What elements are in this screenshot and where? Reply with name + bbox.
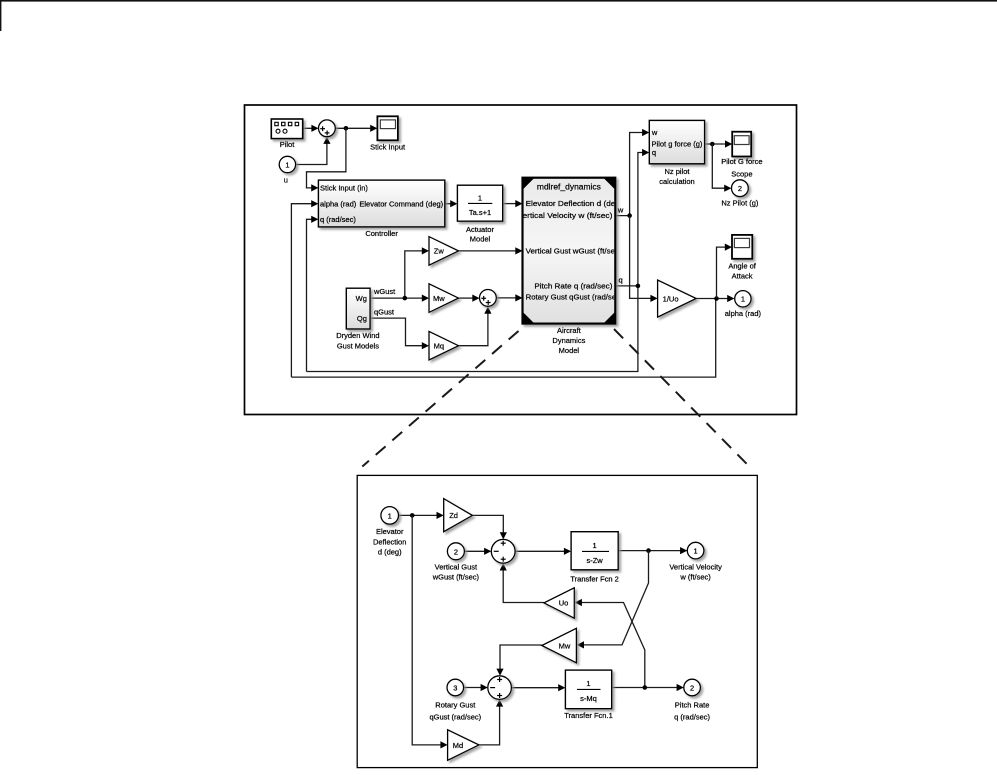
svg-text:Ta.s+1: Ta.s+1 bbox=[469, 208, 491, 217]
svg-text:Gust Models: Gust Models bbox=[337, 342, 379, 351]
svg-text:wGust: wGust bbox=[373, 287, 396, 296]
wire: Zw to model in2 bbox=[459, 250, 517, 252]
svg-text:Vertical Velocity: Vertical Velocity bbox=[669, 562, 722, 571]
svg-text:3: 3 bbox=[453, 684, 457, 693]
signal generator Pilot bbox=[271, 119, 302, 139]
node: q junction bbox=[636, 284, 641, 289]
svg-text:Angle of: Angle of bbox=[728, 261, 756, 270]
transfer fcn Actuator Model bbox=[457, 185, 502, 221]
svg-text:Stick Input: Stick Input bbox=[370, 143, 406, 152]
svg-text:1: 1 bbox=[586, 679, 590, 688]
svg-text:Vertical Gust wGust (ft/sec): Vertical Gust wGust (ft/sec) bbox=[526, 246, 623, 255]
sum S1 bbox=[319, 120, 336, 137]
svg-text:w: w bbox=[651, 128, 658, 137]
svg-text:Md: Md bbox=[453, 741, 463, 750]
wire: input port u to Sum bottom bbox=[296, 141, 327, 165]
wire: Actuator to model in1 bbox=[503, 203, 517, 205]
subsystem Nz pilot calculation bbox=[649, 120, 704, 163]
gain Mw bbox=[429, 284, 459, 313]
outport 2 Nz Pilot bbox=[732, 180, 749, 197]
svg-text:1/Uo: 1/Uo bbox=[663, 294, 679, 303]
node: junction after Sum bbox=[344, 126, 349, 131]
svg-text:Uo: Uo bbox=[559, 599, 569, 608]
svg-text:1: 1 bbox=[388, 511, 392, 520]
svg-text:q: q bbox=[619, 276, 623, 285]
wire: w down to 1/Uo gain bbox=[630, 216, 652, 299]
wire: wGust up to Zw gain bbox=[405, 251, 423, 298]
svg-text:Attack: Attack bbox=[732, 272, 753, 281]
node: Nz output junction bbox=[710, 142, 715, 147]
wire: q output to Nz calc q input bbox=[615, 153, 643, 286]
svg-text:1: 1 bbox=[741, 295, 745, 304]
wire: qGust to Mq gain bbox=[370, 318, 423, 346]
wire: w output to Nz calc w input bbox=[615, 133, 643, 216]
wire: q feedback into Controller bbox=[307, 219, 313, 371]
inport 3 Rotary Gust bbox=[447, 679, 464, 696]
svg-text:Pilot: Pilot bbox=[280, 140, 296, 149]
svg-text:1: 1 bbox=[478, 194, 482, 203]
wire: Transfer Fcn.1 to outport 2 bbox=[612, 687, 678, 689]
scope Angle of Attack bbox=[732, 235, 752, 259]
wire: Mw output to Sum4 top bbox=[500, 645, 542, 670]
gain Mq bbox=[429, 331, 459, 360]
svg-text:Controller: Controller bbox=[365, 229, 398, 238]
wire: alpha up to Angle of Attack scope bbox=[717, 247, 726, 298]
svg-text:Scope: Scope bbox=[731, 169, 752, 178]
node: alpha junction bbox=[714, 296, 719, 301]
svg-text:Pitch Rate q (rad/sec): Pitch Rate q (rad/sec) bbox=[534, 282, 613, 291]
svg-text:q (rad/sec): q (rad/sec) bbox=[674, 712, 710, 721]
wire: w cross down to Mw input bbox=[583, 551, 649, 645]
svg-text:Qg: Qg bbox=[357, 314, 367, 323]
svg-text:Vertical Velocity w (ft/sec): Vertical Velocity w (ft/sec) bbox=[517, 211, 613, 220]
scope Stick Input bbox=[377, 116, 398, 140]
svg-text:1: 1 bbox=[694, 547, 698, 556]
inport 2 Vertical Gust bbox=[447, 543, 464, 560]
gain Uo bbox=[544, 588, 574, 618]
svg-text:Zw: Zw bbox=[434, 247, 445, 256]
wire: Mq up to Sum2 bottom bbox=[459, 310, 488, 345]
svg-text:2: 2 bbox=[454, 547, 458, 556]
wire: Sum2 to model in3 bbox=[496, 297, 516, 299]
svg-text:Vertical Gust: Vertical Gust bbox=[435, 562, 478, 571]
outport 1 alpha bbox=[735, 291, 751, 307]
svg-text:q (rad/sec): q (rad/sec) bbox=[320, 215, 356, 224]
wire: inport3 to Sum4 bbox=[464, 687, 482, 689]
svg-text:Rotary Gust: Rotary Gust bbox=[435, 701, 476, 710]
svg-text:Model: Model bbox=[470, 235, 491, 244]
svg-text:Pilot g force (g): Pilot g force (g) bbox=[652, 140, 703, 149]
svg-text:q: q bbox=[652, 148, 656, 157]
wire: inport1 to Zd bbox=[399, 514, 438, 516]
svg-text:alpha (rad): alpha (rad) bbox=[725, 309, 762, 318]
svg-text:Model: Model bbox=[559, 346, 580, 355]
wire: alpha feedback horizontal bbox=[291, 299, 715, 378]
svg-text:Wg: Wg bbox=[356, 294, 367, 303]
svg-text:d (deg): d (deg) bbox=[378, 547, 402, 556]
svg-text:qGust: qGust bbox=[374, 307, 395, 316]
svg-text:Dryden Wind: Dryden Wind bbox=[336, 331, 379, 340]
svg-text:Nz pilot: Nz pilot bbox=[664, 167, 690, 176]
wire: q feedback horizontal bbox=[307, 286, 638, 372]
svg-text:mdlref_dynamics: mdlref_dynamics bbox=[537, 183, 601, 192]
model reference block mdlref_dynamics bbox=[523, 178, 616, 324]
gain Md bbox=[448, 730, 479, 761]
svg-text:Mq: Mq bbox=[434, 342, 444, 351]
svg-text:2: 2 bbox=[690, 684, 694, 693]
svg-text:qGust (rad/sec): qGust (rad/sec) bbox=[429, 712, 481, 721]
wire: Md output to Sum4 bottom bbox=[479, 706, 500, 745]
svg-text:Elevator Command (deg): Elevator Command (deg) bbox=[359, 199, 443, 208]
sum S4 bbox=[488, 676, 512, 700]
svg-text:w (ft/sec): w (ft/sec) bbox=[679, 573, 711, 582]
svg-text:Transfer Fcn.1: Transfer Fcn.1 bbox=[564, 711, 613, 720]
wire: elevator down to Md bbox=[412, 515, 441, 745]
svg-text:u: u bbox=[284, 176, 288, 185]
svg-text:s-Zw: s-Zw bbox=[586, 556, 603, 565]
svg-text:s-Mq: s-Mq bbox=[580, 694, 597, 703]
svg-text:Nz Pilot (g): Nz Pilot (g) bbox=[721, 198, 759, 207]
wire: Controller to Actuator bbox=[445, 203, 451, 205]
wire: Sum output to Stick Input scope bbox=[335, 127, 371, 129]
subsystem detail outer border bbox=[357, 475, 757, 767]
wire: Sum4 to Transfer Fcn.1 bbox=[511, 687, 559, 689]
wire: 1/Uo output to alpha port bbox=[696, 298, 728, 300]
page corner mark bbox=[0, 0, 997, 2]
outport 1 Vertical Velocity bbox=[687, 542, 704, 559]
wire: Nz calc output to scope bbox=[705, 143, 726, 145]
dashed expansion line right bbox=[614, 329, 748, 466]
svg-text:Mw: Mw bbox=[559, 642, 571, 651]
svg-text:1: 1 bbox=[285, 160, 289, 169]
wire: junction to Controller Stick Input port bbox=[307, 128, 346, 188]
svg-text:alpha (rad): alpha (rad) bbox=[320, 199, 357, 208]
wire: wGust to Mw gain bbox=[370, 297, 423, 299]
wire: Transfer Fcn 2 to outport 1 bbox=[618, 550, 681, 552]
wire: q cross up to Uo input bbox=[581, 603, 645, 688]
svg-text:wGust (ft/sec): wGust (ft/sec) bbox=[432, 573, 480, 582]
dashed expansion line left bbox=[362, 331, 518, 467]
node: w junction bbox=[627, 213, 632, 218]
svg-text:Transfer Fcn 2: Transfer Fcn 2 bbox=[570, 575, 619, 584]
sum S3 bbox=[491, 539, 515, 563]
wire: inport2 to Sum3 bbox=[464, 550, 485, 552]
node: elevator junction bbox=[410, 513, 415, 518]
svg-text:Aircraft: Aircraft bbox=[557, 326, 582, 335]
wire: Uo output to Sum3 bottom bbox=[503, 570, 544, 603]
sum S2 bbox=[480, 290, 497, 307]
svg-text:Rotary Gust qGust (rad/sec): Rotary Gust qGust (rad/sec) bbox=[526, 292, 624, 301]
node: wGust junction bbox=[403, 296, 408, 301]
top model outer border bbox=[245, 105, 797, 415]
svg-text:Elevator: Elevator bbox=[376, 527, 404, 536]
svg-text:Actuator: Actuator bbox=[466, 225, 494, 234]
svg-text:Stick Input (in): Stick Input (in) bbox=[320, 184, 368, 193]
svg-text:Zd: Zd bbox=[449, 511, 458, 520]
svg-text:w: w bbox=[617, 205, 624, 214]
svg-text:Dynamics: Dynamics bbox=[552, 336, 585, 345]
wire: junction down to Nz Pilot port bbox=[712, 144, 725, 188]
gain 1/Uo bbox=[658, 280, 697, 317]
wire: Mw to Sum2 bbox=[459, 297, 474, 299]
inport 1 Elevator Deflection bbox=[381, 507, 399, 525]
transfer fcn Transfer Fcn.1 bbox=[565, 670, 611, 709]
gain Mw (detail) bbox=[542, 628, 577, 663]
wire: alpha feedback into Controller bbox=[291, 204, 312, 377]
svg-text:Pilot G force: Pilot G force bbox=[721, 157, 762, 166]
svg-text:Elevator Deflection d (deg): Elevator Deflection d (deg) bbox=[526, 199, 624, 208]
gain Zw bbox=[429, 237, 459, 266]
gain Zd bbox=[444, 499, 473, 532]
svg-text:Pitch Rate: Pitch Rate bbox=[675, 701, 710, 710]
subsystem Controller bbox=[318, 180, 444, 227]
node: w junction (detail) bbox=[646, 548, 651, 553]
transfer fcn Transfer Fcn 2 bbox=[571, 532, 618, 570]
subsystem Dryden Wind Gust Models bbox=[346, 288, 370, 329]
svg-text:2: 2 bbox=[738, 184, 742, 193]
node: q junction (detail) bbox=[643, 685, 648, 690]
wire: Sum3 to Transfer Fcn 2 bbox=[515, 550, 565, 552]
svg-text:1: 1 bbox=[593, 541, 597, 550]
svg-text:Mw: Mw bbox=[433, 294, 445, 303]
inport 1 u bbox=[279, 156, 295, 172]
outport 2 Pitch Rate bbox=[684, 679, 701, 696]
scope Pilot G force Scope bbox=[732, 132, 751, 157]
wire: Zd output to Sum3 top bbox=[472, 515, 503, 533]
svg-text:calculation: calculation bbox=[659, 177, 694, 186]
wire: Pilot to Sum bbox=[303, 127, 312, 129]
svg-text:Deflection: Deflection bbox=[373, 537, 406, 546]
